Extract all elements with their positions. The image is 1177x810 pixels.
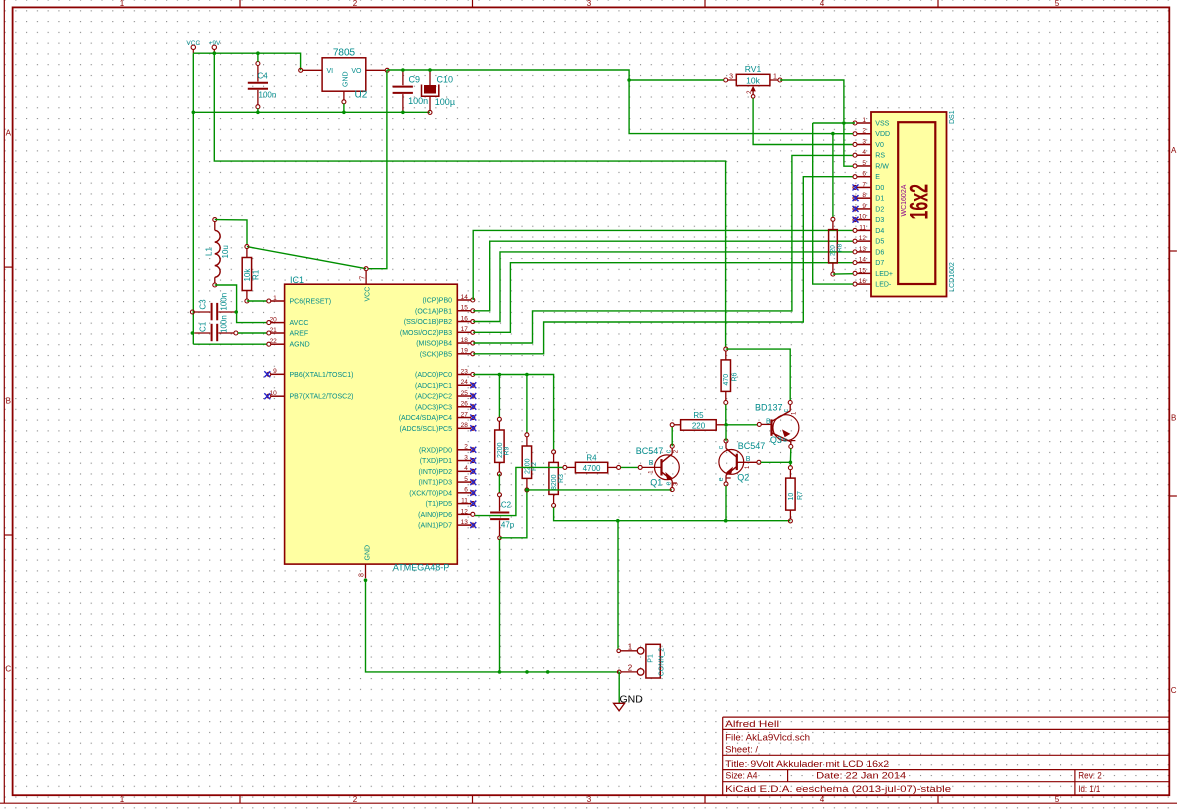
junction PC0 at R2 [525, 373, 529, 377]
svg-text:1: 1 [773, 73, 777, 80]
svg-text:2: 2 [464, 444, 468, 451]
svg-text:R1: R1 [252, 269, 261, 280]
svg-text:VO: VO [351, 68, 362, 75]
svg-text:1: 1 [862, 117, 866, 124]
svg-text:e: e [782, 438, 789, 442]
svg-text:(SCK)PB5: (SCK)PB5 [420, 351, 452, 358]
svg-text:17: 17 [461, 326, 469, 333]
pin 7 VCC of IC1 [359, 267, 371, 302]
wire VSS net to LCD pin1 [813, 122, 855, 124]
svg-text:(ADC1)PC1: (ADC1)PC1 [415, 383, 452, 390]
svg-text:IC1: IC1 [290, 275, 304, 285]
svg-text:E: E [875, 174, 880, 181]
svg-text:15: 15 [461, 305, 469, 312]
svg-text:(ADC5/SCL)PC5: (ADC5/SCL)PC5 [399, 426, 452, 433]
svg-text:RV1: RV1 [745, 64, 762, 74]
junction C1 left [191, 331, 195, 335]
wire R8 to LED+ [833, 273, 853, 275]
svg-text:R3: R3 [558, 474, 565, 483]
svg-text:AREF: AREF [290, 331, 309, 338]
svg-text:D3: D3 [875, 217, 884, 224]
junction rail to P1 [616, 519, 620, 523]
svg-text:13: 13 [461, 519, 469, 526]
wire RV1 pin1 to VSS net [780, 80, 844, 121]
svg-text:3: 3 [587, 795, 592, 804]
svg-text:C4: C4 [258, 72, 269, 81]
svg-text:25: 25 [461, 390, 469, 397]
svg-text:(INT1)PD3: (INT1)PD3 [419, 480, 453, 487]
svg-text:R6: R6 [732, 372, 739, 381]
svg-text:e: e [718, 477, 725, 481]
svg-text:D2: D2 [875, 206, 884, 213]
wire PB1 to LCD D5 [473, 241, 853, 311]
transistor Q1 BC547 [636, 444, 680, 491]
svg-text:GND: GND [620, 693, 644, 705]
svg-text:B: B [766, 419, 771, 426]
svg-text:PC6(RESET): PC6(RESET) [290, 299, 332, 306]
wire R3 bottom to rail [554, 508, 791, 521]
svg-text:VDD: VDD [875, 131, 890, 138]
svg-text:C1: C1 [199, 321, 208, 332]
LCD module DS1 LCD1602 body [871, 110, 956, 296]
svg-text:Q1: Q1 [650, 478, 662, 488]
svg-text:File: AkLa9Vlcd.sch: File: AkLa9Vlcd.sch [725, 732, 810, 742]
junction R5/R6/Q2/Q3 node [724, 423, 728, 427]
svg-text:C: C [5, 664, 11, 673]
resistor R1 10k [242, 245, 260, 303]
svg-text:D7: D7 [875, 260, 884, 267]
wire C4 bottom stub [257, 109, 259, 113]
svg-text:12: 12 [461, 508, 469, 515]
junction C4 top [256, 51, 260, 55]
wire AGND feed [193, 343, 267, 345]
svg-text:9: 9 [862, 203, 866, 210]
junction rail to Q2 emitter [724, 519, 728, 523]
svg-text:R8: R8 [837, 243, 844, 252]
svg-text:(ICP)PB0: (ICP)PB0 [422, 298, 452, 305]
svg-text:18: 18 [461, 337, 469, 344]
ground symbol GND [614, 693, 644, 710]
resistor R6 470 [721, 347, 739, 404]
power flag +9V [209, 40, 221, 53]
wire PC0 to R3 [473, 375, 553, 450]
svg-text:220: 220 [830, 245, 837, 256]
wire R6 bottom to node [725, 405, 727, 425]
svg-text:12: 12 [859, 235, 867, 242]
svg-text:A: A [1171, 146, 1177, 155]
potentiometer RV1 10k [724, 64, 782, 98]
svg-text:C2: C2 [501, 501, 512, 510]
junction C9 bottom [401, 111, 405, 115]
connector P1 CONN_2 [617, 642, 666, 678]
capacitor C3 100n [190, 293, 236, 320]
svg-text:5: 5 [1055, 795, 1060, 804]
svg-text:1: 1 [628, 642, 633, 651]
wire IC GND down [366, 580, 620, 672]
svg-text:47p: 47p [501, 520, 515, 529]
svg-text:16: 16 [461, 315, 469, 322]
svg-text:(RXD)PD0: (RXD)PD0 [419, 447, 452, 454]
svg-text:V0: V0 [875, 142, 884, 149]
title block [723, 717, 1170, 795]
svg-text:Alfred Hell: Alfred Hell [725, 719, 779, 729]
svg-text:C3: C3 [199, 299, 208, 310]
svg-text:c: c [718, 445, 725, 449]
svg-text:4700: 4700 [583, 464, 601, 473]
svg-text:Date: 22 Jan 2014: Date: 22 Jan 2014 [816, 771, 906, 781]
svg-text:24: 24 [461, 379, 469, 386]
wire PB4 to LCD RS [473, 155, 853, 343]
svg-text:D4: D4 [875, 228, 884, 235]
svg-text:100n: 100n [219, 315, 228, 333]
svg-text:VSS: VSS [875, 121, 889, 128]
regulator U2 7805 [299, 48, 390, 104]
svg-text:(ADC0)PC0: (ADC0)PC0 [415, 372, 452, 379]
svg-text:D1: D1 [875, 196, 884, 203]
transistor Q2 BC547 [718, 439, 765, 486]
junction GND rail 1 [498, 670, 502, 674]
capacitor C9 100n [393, 70, 429, 112]
resistor R9 2200 [495, 375, 511, 476]
wire Q1 collector to R5 [671, 427, 673, 446]
wire 5V to RV1 pin3 [629, 79, 724, 81]
wire C2 bottom to R2 bottom [500, 492, 527, 538]
junction 5V at RV1 branch [627, 78, 631, 82]
svg-text:21: 21 [270, 327, 278, 334]
junction IC1 GND pin [364, 578, 368, 582]
svg-text:(OC1A)PB1: (OC1A)PB1 [415, 308, 452, 315]
svg-text:15: 15 [859, 267, 867, 274]
svg-text:4: 4 [862, 149, 866, 156]
svg-text:5: 5 [862, 160, 866, 167]
svg-text:B: B [649, 460, 654, 467]
wire U2 GND stub [343, 104, 345, 113]
svg-text:LED+: LED+ [875, 271, 893, 278]
svg-text:3: 3 [587, 0, 592, 8]
wire PB3 to LCD D7 [473, 263, 853, 333]
wire R6 top to Q3 collector [726, 349, 790, 400]
svg-text:7805: 7805 [333, 48, 356, 59]
svg-text:5: 5 [464, 476, 468, 483]
wire Q3 emitter to junction [789, 449, 791, 463]
svg-text:2: 2 [353, 795, 358, 804]
svg-text:8: 8 [862, 192, 866, 199]
capacitor C10 100u [422, 70, 456, 114]
IC1 left pins [264, 295, 353, 401]
capacitor C1 100n [194, 315, 238, 341]
svg-text:+9V: +9V [209, 40, 221, 47]
svg-text:BC547: BC547 [738, 441, 766, 451]
IC1 right pins [399, 294, 477, 530]
power flag VCC [186, 40, 200, 53]
wire P1 pin1 drop [617, 521, 619, 649]
wire R2 bottom to Q1 emitter [527, 489, 672, 491]
capacitor C4 100n [248, 62, 276, 109]
resistor R7 10 [786, 462, 804, 523]
svg-text:RS: RS [875, 153, 885, 160]
svg-text:220: 220 [692, 421, 706, 430]
svg-text:c: c [783, 409, 790, 413]
svg-text:(MISO)PB4: (MISO)PB4 [416, 341, 452, 348]
svg-text:Id: 1/1: Id: 1/1 [1078, 784, 1100, 794]
svg-text:27: 27 [461, 411, 469, 418]
wire node to Q3 base [726, 424, 757, 426]
svg-text:8200: 8200 [551, 474, 558, 490]
svg-text:4: 4 [820, 795, 825, 804]
resistor R2 2200 [522, 375, 538, 492]
svg-text:11: 11 [859, 224, 866, 231]
svg-text:PB6(XTAL1/TOSC1): PB6(XTAL1/TOSC1) [290, 372, 354, 379]
svg-text:R7: R7 [797, 491, 804, 500]
svg-text:PB7(XTAL2/TOSC2): PB7(XTAL2/TOSC2) [290, 394, 354, 401]
junction R2 bottom [525, 488, 529, 492]
svg-text:3: 3 [729, 73, 733, 80]
svg-text:19: 19 [461, 348, 469, 355]
svg-text:10k: 10k [746, 76, 760, 86]
svg-text:10: 10 [270, 390, 278, 397]
svg-text:ATMEGA48-P: ATMEGA48-P [393, 563, 449, 573]
svg-text:R5: R5 [693, 411, 704, 420]
svg-text:16x2: 16x2 [906, 184, 934, 220]
wire VCC down left rail [192, 53, 194, 344]
svg-text:10: 10 [859, 214, 867, 221]
wire VCC rail [193, 53, 300, 70]
junction VDD at R8 [831, 132, 835, 136]
svg-text:4: 4 [820, 0, 825, 8]
svg-text:2: 2 [628, 663, 633, 672]
svg-text:3: 3 [862, 138, 866, 145]
wire R4 to Q1 base [621, 466, 639, 468]
svg-text:CONN_2: CONN_2 [659, 648, 666, 677]
svg-text:(ADC4/SDA)PC4: (ADC4/SDA)PC4 [399, 415, 452, 422]
svg-text:23: 23 [461, 368, 469, 375]
wire R1 top to IC pin7 diagonal [247, 247, 366, 269]
wire Q2 collector to node [725, 427, 727, 441]
resistor R4 4700 [563, 453, 621, 473]
svg-text:26: 26 [461, 401, 469, 408]
svg-text:L1: L1 [205, 247, 214, 256]
pin 8 GND of IC1 [358, 545, 371, 578]
svg-text:(AIN0)PD6: (AIN0)PD6 [418, 512, 452, 519]
junction GND rail 2 [525, 670, 529, 674]
svg-text:KiCad E.D.A. eeschema (2013-j: KiCad E.D.A. eeschema (2013-jul-07)-stab… [725, 784, 951, 794]
junction +9V rail [213, 51, 217, 55]
svg-text:7: 7 [359, 276, 366, 280]
junction GND rail 3 [546, 670, 550, 674]
wire Q2 base to Q3 emitter node [761, 461, 791, 463]
svg-text:2: 2 [862, 128, 866, 135]
wire C2 bottom to GND rail [499, 540, 501, 672]
wire +9V down and across to R6 [214, 53, 725, 347]
svg-text:100n: 100n [408, 96, 428, 106]
transistor Q3 BD137 [755, 401, 799, 449]
svg-text:3: 3 [464, 454, 468, 461]
svg-text:GND: GND [343, 71, 350, 87]
svg-text:(ADC3)PC3: (ADC3)PC3 [415, 404, 452, 411]
svg-text:7: 7 [862, 181, 866, 188]
svg-text:R/W: R/W [875, 163, 889, 170]
svg-text:20: 20 [270, 317, 278, 324]
wire PB0 to LCD D4 [473, 230, 853, 300]
svg-text:1: 1 [120, 0, 125, 8]
junction U2 GND [342, 111, 346, 115]
svg-text:LCD1602: LCD1602 [949, 262, 956, 292]
wire AREF feed [238, 332, 267, 334]
svg-text:Size: A4: Size: A4 [726, 771, 758, 781]
svg-text:8: 8 [358, 573, 365, 577]
junction Q2 base / Q3 emitter / R7 [789, 461, 793, 465]
svg-text:BC547: BC547 [636, 446, 664, 456]
svg-text:AVCC: AVCC [290, 320, 309, 327]
svg-text:Sheet: /: Sheet: / [725, 744, 759, 754]
wire Q2 emitter down [725, 486, 727, 521]
svg-text:VCC: VCC [364, 287, 371, 302]
resistor R5 220 [670, 411, 726, 430]
wire VSS to RW [844, 123, 853, 166]
svg-text:Q3: Q3 [770, 435, 782, 445]
svg-text:B: B [746, 456, 751, 463]
svg-text:(INT0)PD2: (INT0)PD2 [419, 469, 453, 476]
svg-text:1: 1 [273, 295, 277, 302]
svg-text:470: 470 [723, 374, 730, 386]
svg-text:(ADC2)PC2: (ADC2)PC2 [415, 394, 452, 401]
junction PC0 at R9 [498, 373, 502, 377]
svg-text:100µ: 100µ [435, 97, 455, 107]
svg-text:D5: D5 [875, 239, 884, 246]
junction C9 top [401, 68, 405, 72]
svg-text:GND: GND [364, 545, 371, 561]
wire VO down to IC1 VCC pin7 [368, 70, 387, 269]
svg-text:16: 16 [859, 278, 867, 285]
svg-text:Q2: Q2 [737, 473, 749, 483]
svg-text:A: A [6, 129, 12, 138]
resistor R8 220 (LED backlight) [829, 134, 844, 277]
svg-text:(T1)PD5: (T1)PD5 [426, 501, 453, 508]
resistor R3 8200 [549, 450, 565, 508]
wire PB5 to LCD E [473, 177, 853, 354]
svg-text:B: B [1171, 414, 1176, 423]
svg-text:2: 2 [353, 0, 358, 8]
svg-text:R9: R9 [503, 446, 510, 455]
svg-text:6: 6 [862, 171, 866, 178]
wire VSS to LED- [813, 123, 853, 284]
svg-text:LED-: LED- [875, 282, 892, 289]
junction C4 bottom [256, 111, 260, 115]
svg-text:(MOSI/OC2)PB3: (MOSI/OC2)PB3 [400, 330, 452, 337]
svg-text:P1: P1 [648, 654, 655, 663]
svg-text:c: c [665, 449, 672, 453]
svg-text:14: 14 [859, 257, 867, 264]
svg-text:14: 14 [461, 294, 469, 301]
svg-text:(XCK/T0)PD4: (XCK/T0)PD4 [409, 490, 452, 497]
junction VSS [842, 121, 846, 125]
svg-text:6: 6 [464, 487, 468, 494]
svg-text:AGND: AGND [290, 342, 310, 349]
svg-text:Title: 9Volt Akkulader mit LCD: Title: 9Volt Akkulader mit LCD 16x2 [725, 759, 889, 769]
svg-text:VCC: VCC [186, 40, 200, 47]
svg-text:C9: C9 [409, 74, 421, 84]
svg-text:(SS/OC1B)PB2: (SS/OC1B)PB2 [404, 319, 452, 326]
capacitor C2 47p [490, 493, 515, 540]
svg-text:11: 11 [461, 498, 468, 505]
svg-text:9: 9 [273, 368, 277, 375]
IC U1 ATMEGA48-P body [285, 275, 458, 573]
svg-text:10u: 10u [221, 245, 230, 258]
svg-text:5: 5 [1055, 0, 1060, 8]
svg-text:13: 13 [859, 246, 867, 253]
svg-text:28: 28 [461, 422, 469, 429]
wire C4 top stub [257, 53, 259, 62]
svg-text:100n: 100n [219, 293, 228, 311]
svg-text:(AIN1)PD7: (AIN1)PD7 [418, 523, 452, 530]
svg-text:R4: R4 [586, 453, 597, 462]
wire PD6 to R4 [475, 467, 563, 515]
junction VCC/GND rail corner [192, 111, 196, 115]
svg-text:BD137: BD137 [755, 403, 783, 413]
svg-text:C: C [1171, 686, 1177, 695]
svg-text:C10: C10 [437, 74, 454, 84]
svg-text:R2: R2 [531, 462, 538, 471]
inductor L1 10u [205, 218, 230, 287]
junction C10 top [428, 68, 432, 72]
svg-text:VI: VI [327, 68, 334, 75]
svg-text:100n: 100n [259, 91, 277, 100]
svg-text:U2: U2 [355, 90, 368, 101]
wire PB2 to LCD D6 [473, 252, 853, 322]
junction C3 right [234, 310, 238, 314]
wire RV1 wiper to LCD V0 [753, 98, 853, 144]
svg-text:4: 4 [464, 465, 468, 472]
svg-text:e: e [665, 482, 672, 486]
svg-text:DS1: DS1 [949, 110, 956, 124]
wire R1 bottom to IC pin1 [247, 300, 267, 302]
svg-text:D0: D0 [875, 185, 884, 192]
wire GND stub below P1 [618, 672, 620, 703]
svg-text:B: B [6, 397, 11, 406]
wire L1 top to R1 top [215, 220, 247, 245]
svg-text:10: 10 [788, 493, 795, 501]
svg-text:1: 1 [120, 795, 125, 804]
wire AVCC feed [215, 285, 267, 323]
wire GND analog rail [193, 111, 430, 113]
wire VDD to LCD pin2 [833, 133, 853, 135]
wire R9 to C2 [498, 474, 500, 493]
svg-text:(TXD)PD1: (TXD)PD1 [420, 458, 452, 465]
wire VO 5V rail [387, 70, 833, 134]
svg-text:D6: D6 [875, 249, 884, 256]
svg-text:Rev: 2: Rev: 2 [1078, 771, 1102, 781]
svg-text:22: 22 [270, 338, 278, 345]
LCD DS1 pins [853, 117, 894, 289]
